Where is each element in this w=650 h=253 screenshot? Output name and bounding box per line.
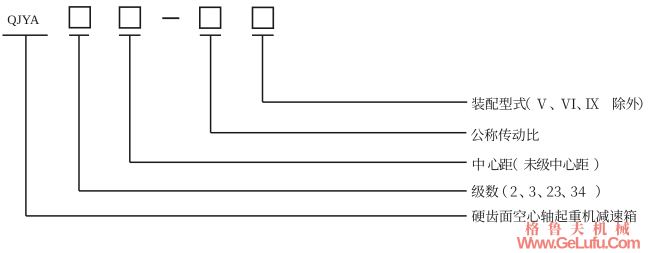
svg-text:Www.GeLufu.Com: Www.GeLufu.Com <box>517 235 641 253</box>
svg-text:QJYA: QJYA <box>7 13 40 27</box>
